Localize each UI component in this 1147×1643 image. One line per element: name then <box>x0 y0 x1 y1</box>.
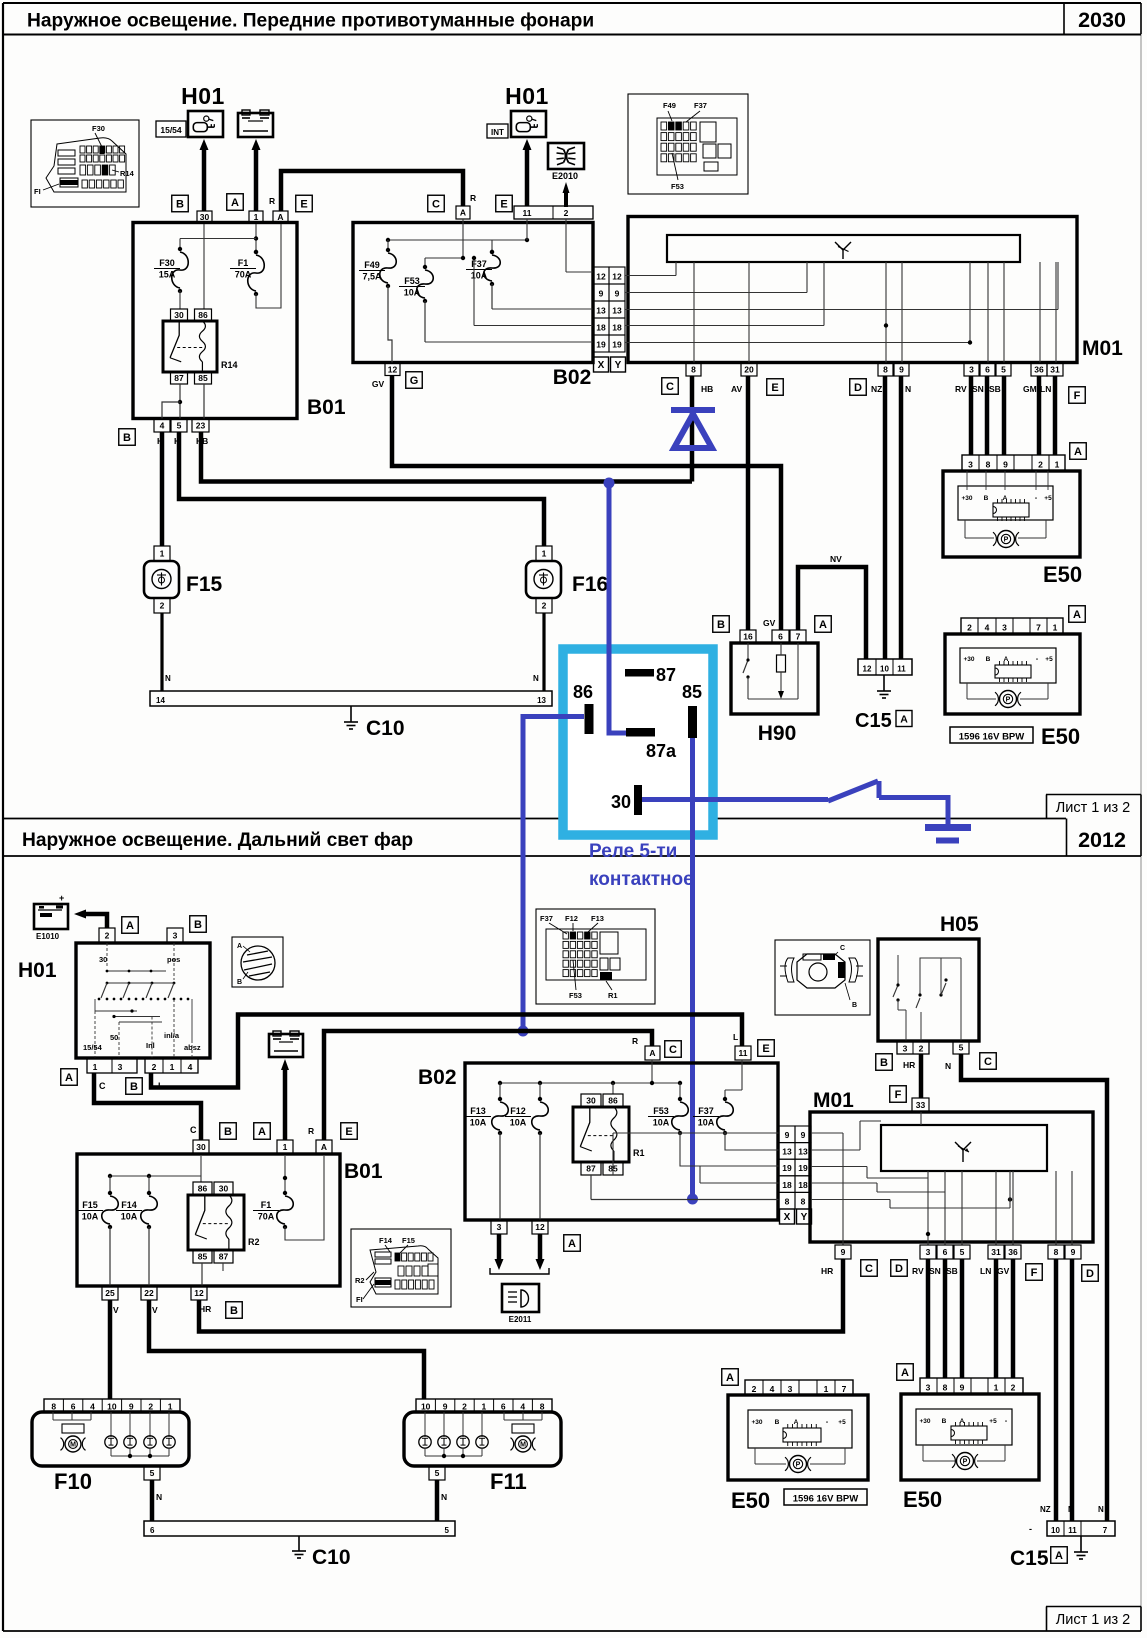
connector letter B bottom <box>119 429 136 446</box>
pin 1 of B01 <box>249 211 263 223</box>
svg-text:36: 36 <box>1008 1247 1018 1257</box>
svg-text:контактное: контактное <box>589 869 694 890</box>
svg-text:6: 6 <box>943 1247 948 1257</box>
svg-text:8: 8 <box>691 365 696 375</box>
blue wire junction to relay 87a <box>609 483 626 733</box>
svg-text:B: B <box>237 979 242 986</box>
svg-text:R: R <box>269 196 275 206</box>
title bar page 2012 <box>3 819 1141 857</box>
svg-text:Наружное освещение. Дальний св: Наружное освещение. Дальний свет фар <box>22 830 413 851</box>
svg-text:R: R <box>308 1126 314 1136</box>
svg-text:H01: H01 <box>18 959 57 982</box>
svg-text:10A: 10A <box>510 1118 527 1128</box>
wire H pin5 to F16 <box>179 432 544 546</box>
svg-text:B02: B02 <box>553 366 592 389</box>
svg-text:E2011: E2011 <box>509 1315 532 1324</box>
svg-text:9: 9 <box>599 289 604 299</box>
svg-text:F15: F15 <box>82 1200 98 1210</box>
connector pin grid B02-M01 (12 9 13 18 19) <box>593 267 625 352</box>
svg-text:V: V <box>113 1305 119 1315</box>
connector letter Y (bottom) <box>797 1209 812 1224</box>
svg-text:13: 13 <box>782 1147 792 1157</box>
svg-text:N: N <box>165 674 171 683</box>
connector letter B (B01) <box>220 1123 237 1140</box>
svg-text:C: C <box>666 381 674 393</box>
svg-text:C: C <box>432 198 440 210</box>
fuse F15 10A <box>77 1191 118 1286</box>
svg-text:M: M <box>70 1442 76 1449</box>
head lamp unit F11 <box>404 1399 561 1494</box>
svg-text:2: 2 <box>462 1402 467 1412</box>
H01 bottom pins 2 1 4 <box>145 1058 198 1073</box>
svg-text:85: 85 <box>198 373 208 383</box>
pin 4 of B01 <box>154 419 170 432</box>
svg-text:10: 10 <box>880 665 889 674</box>
wire N M01-9 to C15-11 (bottom) <box>1070 1259 1075 1521</box>
svg-text:A: A <box>726 1372 734 1384</box>
connector H01 top-left label <box>181 83 225 109</box>
svg-text:A: A <box>277 212 283 222</box>
svg-text:11: 11 <box>523 208 532 218</box>
pin 22 of B01 <box>141 1286 157 1300</box>
wire C H01-1 to B01-30 <box>94 1073 201 1140</box>
svg-text:A: A <box>65 1072 73 1084</box>
blue wire into pin 86 <box>523 714 584 719</box>
svg-text:C: C <box>865 1263 873 1275</box>
pin 3 of B02 (bottom) <box>491 1220 507 1234</box>
svg-text:30: 30 <box>196 1142 206 1152</box>
svg-text:absz: absz <box>184 1043 201 1052</box>
INT box <box>487 124 508 138</box>
M01 internal wiring (top) <box>625 262 1058 363</box>
blue wire switch to ground <box>879 798 948 825</box>
svg-text:1: 1 <box>1055 460 1060 470</box>
module M01 box (bottom) <box>810 1089 1093 1242</box>
wire RV M01-3 to E50-3 <box>969 376 974 455</box>
svg-text:A: A <box>321 1142 327 1152</box>
battery icon <box>238 110 273 137</box>
svg-text:C: C <box>99 1081 106 1091</box>
svg-text:10A: 10A <box>82 1212 99 1222</box>
svg-text:H05: H05 <box>940 913 979 936</box>
svg-text:F11: F11 <box>490 1469 527 1494</box>
wire GV M01-36 to E50-2 (bottom) <box>1011 1259 1016 1378</box>
wire pin2 to E1010 (arrow left) <box>74 910 107 929</box>
svg-text:Лист 1 из 2: Лист 1 из 2 <box>1056 1612 1130 1628</box>
svg-text:Лист 1 из 2: Лист 1 из 2 <box>1056 800 1130 816</box>
svg-text:F49: F49 <box>364 260 380 270</box>
wire GV B02 to H90 <box>392 376 781 631</box>
svg-text:F16: F16 <box>572 573 608 596</box>
svg-text:E50: E50 <box>1041 724 1080 749</box>
svg-text:Реле 5-ти: Реле 5-ти <box>589 841 677 862</box>
M01 bottom wire labels <box>821 1260 1098 1282</box>
svg-text:87: 87 <box>656 665 676 685</box>
wire label L (B02) <box>733 1032 738 1042</box>
svg-text:12: 12 <box>194 1288 204 1298</box>
blue wire 30 to switch <box>642 797 828 802</box>
svg-text:18: 18 <box>612 323 622 333</box>
svg-text:E2010: E2010 <box>552 171 578 181</box>
svg-text:+30: +30 <box>961 495 972 502</box>
svg-text:2: 2 <box>1011 1383 1016 1393</box>
svg-text:6: 6 <box>985 365 990 375</box>
svg-text:8: 8 <box>51 1402 56 1412</box>
wire label L <box>158 1081 164 1091</box>
svg-text:A: A <box>649 1048 655 1058</box>
B02 internal top rail <box>386 219 566 272</box>
relay pin 87 bar <box>625 665 676 685</box>
fuse F1 70A <box>230 224 281 308</box>
fuse F53 10A (bottom) <box>648 1097 779 1166</box>
svg-text:L: L <box>733 1032 738 1042</box>
svg-text:3: 3 <box>969 365 974 375</box>
ignition key icon H01 <box>188 111 223 137</box>
svg-text:5: 5 <box>150 1468 155 1478</box>
svg-text:30: 30 <box>219 1184 229 1194</box>
svg-text:F30: F30 <box>92 124 105 133</box>
headlamp leveling motor E50 (bottom left) <box>722 1369 868 1513</box>
wire label R (B01) <box>308 1126 314 1136</box>
fuse F37 10A (bottom) <box>693 1097 779 1150</box>
svg-text:3: 3 <box>173 931 178 941</box>
wire NZ M01-8 to C15-10 (bottom) <box>1054 1259 1059 1521</box>
svg-text:+5: +5 <box>989 1418 997 1425</box>
connector letter B (H01) <box>190 916 207 933</box>
svg-text:A: A <box>819 619 827 631</box>
svg-text:H01: H01 <box>505 83 549 109</box>
svg-text:1: 1 <box>1053 623 1058 633</box>
high beam icon E2011 <box>502 1284 539 1324</box>
svg-text:B: B <box>984 495 989 502</box>
svg-text:13: 13 <box>596 306 606 316</box>
blue diode annotation on HB wire <box>671 410 715 448</box>
ground connector C10 (bottom) <box>144 1521 455 1569</box>
sheet label top (Лист 1 из 2) <box>1046 795 1141 857</box>
svg-text:E50: E50 <box>1043 562 1082 587</box>
svg-text:F15: F15 <box>186 573 223 596</box>
svg-text:Inl: Inl <box>146 1041 155 1050</box>
svg-text:1596 16V BPW: 1596 16V BPW <box>959 732 1025 743</box>
connector letter E <box>296 195 313 212</box>
pin 33 of M01 <box>912 1098 929 1112</box>
connector letter B (B01 bottom) <box>226 1302 243 1319</box>
svg-text:1: 1 <box>170 1062 175 1072</box>
svg-text:2: 2 <box>148 1402 153 1412</box>
svg-text:1: 1 <box>482 1402 487 1412</box>
svg-text:3: 3 <box>497 1222 502 1232</box>
svg-text:30: 30 <box>200 212 210 222</box>
svg-text:Наружное освещение. Передние п: Наружное освещение. Передние противотума… <box>27 11 594 32</box>
wire HR B01-12 to M01-9 <box>199 1259 843 1332</box>
connector C15 (top) <box>855 659 912 732</box>
added relay box (Реле 5-ти контактное) <box>563 649 713 835</box>
relay pin 85 bar <box>682 682 702 738</box>
svg-text:NZ: NZ <box>1040 1505 1051 1514</box>
svg-text:4: 4 <box>160 421 165 431</box>
svg-text:5: 5 <box>177 421 182 431</box>
svg-text:1: 1 <box>168 1402 173 1412</box>
wire RV M01-3 to E50-3 (bottom) <box>926 1259 931 1378</box>
H01 internal contacts <box>83 943 201 1058</box>
svg-text:P: P <box>796 1462 801 1469</box>
svg-text:P: P <box>1004 537 1009 544</box>
wire 30 to ignition (arrow up) <box>200 139 209 211</box>
svg-text:14: 14 <box>156 696 165 705</box>
svg-text:INT: INT <box>491 128 504 137</box>
svg-text:30: 30 <box>99 955 107 964</box>
svg-text:B: B <box>194 919 202 931</box>
relay R2 <box>188 1182 260 1263</box>
svg-text:13: 13 <box>537 696 546 705</box>
B02 internal row links <box>425 256 593 342</box>
pin 12 GV of B02 <box>372 363 400 389</box>
svg-text:N: N <box>1068 1505 1074 1514</box>
M01 antenna inner box (bottom) <box>881 1125 1047 1171</box>
connector letter E (B02) <box>758 1040 775 1057</box>
svg-text:B: B <box>230 1305 238 1317</box>
svg-text:3: 3 <box>1002 623 1007 633</box>
headlamp leveling motor E50 (bottom right) <box>897 1364 1039 1512</box>
svg-text:F10: F10 <box>54 1469 92 1494</box>
svg-text:RV: RV <box>955 384 967 394</box>
connector letter E right <box>496 195 513 212</box>
svg-text:R1: R1 <box>608 991 618 1000</box>
svg-text:36: 36 <box>1034 365 1044 375</box>
svg-text:A: A <box>794 1419 799 1426</box>
svg-text:+5: +5 <box>1045 656 1053 663</box>
svg-text:GV: GV <box>763 618 776 628</box>
svg-text:C: C <box>669 1044 677 1056</box>
svg-text:9: 9 <box>841 1247 846 1257</box>
svg-text:9: 9 <box>1071 1247 1076 1257</box>
connector letter A (E50 lower) <box>1069 606 1086 623</box>
pin 12 of B02 (bottom) <box>532 1220 548 1234</box>
connector H01 top-right label <box>505 83 549 109</box>
connector letter A (E50 upper) <box>1070 443 1087 460</box>
connector pin grid B02-M01 bottom (9 13 19 18 8) <box>779 1126 811 1209</box>
svg-text:2: 2 <box>160 601 165 611</box>
svg-text:10: 10 <box>107 1402 117 1412</box>
svg-text:4: 4 <box>90 1402 95 1412</box>
connector letter B (H01 bottom) <box>126 1078 143 1095</box>
svg-text:F37: F37 <box>694 101 707 110</box>
fusebox inset F37/F12/F13 <box>536 909 655 1004</box>
svg-text:A: A <box>901 1367 909 1379</box>
svg-text:86: 86 <box>573 682 593 702</box>
svg-text:F15: F15 <box>402 1236 415 1245</box>
connector letter A (B01) <box>254 1123 271 1140</box>
svg-text:C: C <box>984 1056 992 1068</box>
wire V B01-25 to F10 <box>108 1300 113 1399</box>
M01 bottom pins (top diagram) <box>686 363 1063 376</box>
svg-text:R2: R2 <box>355 1276 365 1285</box>
pin strip 11 2 of B02 <box>514 206 593 219</box>
pin 12 of B01 <box>191 1286 207 1300</box>
svg-text:B: B <box>176 198 184 210</box>
connector letter X (bottom) <box>780 1209 795 1224</box>
svg-text:R2: R2 <box>248 1237 260 1247</box>
svg-text:F13: F13 <box>591 914 604 923</box>
svg-text:70A: 70A <box>235 270 252 280</box>
svg-text:A: A <box>258 1126 266 1138</box>
wire N F10 to C10 <box>152 1480 162 1521</box>
svg-text:F12: F12 <box>510 1106 526 1116</box>
svg-text:85: 85 <box>198 1252 208 1262</box>
wire SB M01-5 to E50-9 <box>1002 376 1007 455</box>
svg-text:13: 13 <box>798 1147 808 1157</box>
svg-text:2: 2 <box>1038 460 1043 470</box>
svg-text:3: 3 <box>926 1247 931 1257</box>
wire LN M01-31 to E50-1 <box>1053 376 1058 455</box>
svg-text:E: E <box>300 198 307 210</box>
connector letter A (B02 bottom) <box>564 1235 581 1252</box>
svg-text:A: A <box>568 1238 576 1250</box>
B02 row 18 stub <box>700 1166 779 1183</box>
wire 1 to battery (arrow up) <box>252 139 261 211</box>
svg-text:N: N <box>1098 1505 1104 1514</box>
svg-text:FI: FI <box>34 187 41 196</box>
svg-text:3: 3 <box>788 1384 793 1394</box>
svg-text:C10: C10 <box>312 1546 351 1569</box>
pin A of B01 (bottom) <box>316 1140 332 1154</box>
svg-text:10A: 10A <box>653 1118 670 1128</box>
blue label контактное <box>589 869 694 890</box>
svg-text:N: N <box>945 1061 951 1071</box>
pin 3 of H01 <box>167 928 183 943</box>
svg-text:E: E <box>345 1126 352 1138</box>
svg-text:GM: GM <box>1023 384 1037 394</box>
wire B02-3 to E2011 (arrow down) <box>495 1234 504 1270</box>
fuse F53 10A (B02 top) <box>399 258 433 342</box>
svg-text:18: 18 <box>596 323 606 333</box>
svg-text:X: X <box>598 360 605 371</box>
svg-text:HR: HR <box>903 1060 915 1070</box>
svg-text:1: 1 <box>254 212 259 222</box>
fusebox inset R2/F1/F14/F15 <box>351 1229 451 1307</box>
wire V B01-22 to F11 <box>149 1300 424 1399</box>
connector C15 (bottom) <box>1010 1505 1115 1570</box>
svg-text:F: F <box>1074 390 1081 402</box>
svg-text:D: D <box>895 1263 903 1275</box>
connector letter A (H01) <box>122 917 139 934</box>
H05 pin 5 <box>953 1041 969 1054</box>
svg-text:9: 9 <box>960 1383 965 1393</box>
svg-text:7: 7 <box>796 632 801 642</box>
wire battery to B01-1 (arrow up) <box>281 1059 289 1140</box>
svg-text:V: V <box>152 1305 158 1315</box>
svg-text:-: - <box>1029 1524 1032 1534</box>
svg-text:4: 4 <box>188 1062 193 1072</box>
svg-text:7: 7 <box>1103 1526 1108 1535</box>
connector letter A (H90) <box>815 616 832 633</box>
connector letter X <box>594 357 609 372</box>
svg-text:N: N <box>533 674 539 683</box>
svg-text:E: E <box>762 1043 769 1055</box>
svg-text:AV: AV <box>731 384 743 394</box>
svg-text:87: 87 <box>174 373 184 383</box>
svg-text:R14: R14 <box>120 169 135 178</box>
svg-text:8: 8 <box>540 1402 545 1412</box>
svg-text:B01: B01 <box>344 1160 383 1183</box>
svg-text:15/54: 15/54 <box>83 1043 103 1052</box>
blue label Реле 5-ти <box>589 841 677 862</box>
svg-text:4: 4 <box>520 1402 525 1412</box>
svg-text:8: 8 <box>785 1196 790 1206</box>
block B01 fuse/relay box <box>133 223 346 420</box>
M01 internal wiring (bottom) <box>811 1112 1072 1245</box>
M01 bottom pins (bottom diagram) <box>835 1245 1081 1259</box>
svg-text:F53: F53 <box>653 1106 669 1116</box>
svg-text:C15: C15 <box>855 710 892 732</box>
svg-text:F37: F37 <box>540 914 553 923</box>
svg-text:87: 87 <box>586 1164 596 1174</box>
svg-text:12: 12 <box>596 272 606 282</box>
wire 2 to E2010 (short arrow up) <box>563 182 570 207</box>
wire HB M01-8 down through diode <box>690 376 695 482</box>
svg-text:9: 9 <box>615 289 620 299</box>
fuse F14 10A <box>116 1191 157 1286</box>
svg-text:E50: E50 <box>903 1487 942 1512</box>
wire label GV (H90) <box>763 618 776 628</box>
ground connector C10 (top) <box>150 691 552 740</box>
svg-text:B01: B01 <box>307 396 346 419</box>
fuse F1 70A (bottom) <box>253 1156 324 1240</box>
svg-text:3: 3 <box>118 1062 123 1072</box>
svg-text:D: D <box>854 382 862 394</box>
svg-text:2030: 2030 <box>1078 8 1126 32</box>
svg-text:C: C <box>840 945 845 952</box>
svg-text:86: 86 <box>198 310 208 320</box>
svg-text:E1010: E1010 <box>36 932 60 941</box>
wire N F16 to C10 <box>533 613 544 691</box>
pin 30 of B01 (bottom) <box>193 1140 209 1154</box>
wire GM M01-36 to E50-2 <box>1037 376 1042 455</box>
svg-text:6: 6 <box>501 1402 506 1412</box>
svg-text:10A: 10A <box>121 1212 138 1222</box>
svg-text:8: 8 <box>1054 1247 1059 1257</box>
wire label N (H05) <box>945 1061 951 1071</box>
svg-text:F1: F1 <box>261 1200 272 1210</box>
svg-text:SN: SN <box>929 1266 941 1276</box>
svg-text:2: 2 <box>542 601 547 611</box>
fog lamp F15 <box>144 546 223 613</box>
pin 1 of B01 (bottom) <box>277 1140 293 1154</box>
wire SN M01-6 to E50-8 (bottom) <box>943 1259 948 1378</box>
svg-text:B: B <box>852 1002 857 1009</box>
svg-text:FI: FI <box>356 1295 363 1304</box>
svg-text:31: 31 <box>991 1247 1001 1257</box>
wire label HR (pin12) <box>199 1304 211 1314</box>
wire label R <box>269 196 275 206</box>
wire N F15 to C10 <box>162 613 171 691</box>
svg-text:10A: 10A <box>470 1118 487 1128</box>
svg-text:18: 18 <box>798 1180 808 1190</box>
svg-text:A: A <box>460 208 466 218</box>
svg-text:2: 2 <box>967 623 972 633</box>
H05 pins 3 2 <box>897 1041 929 1054</box>
svg-text:F: F <box>1031 1267 1038 1279</box>
svg-text:8: 8 <box>883 365 888 375</box>
module M01 box (top) <box>628 217 1123 363</box>
pin 23 of B01 <box>192 419 209 432</box>
svg-text:B: B <box>775 1419 780 1426</box>
svg-text:P: P <box>963 1459 968 1466</box>
wire LN M01-31 to E50-1 (bottom) <box>994 1259 999 1378</box>
svg-text:18: 18 <box>782 1180 792 1190</box>
terminal 15/54 box <box>156 121 186 137</box>
pin 11 of B02 (bottom) <box>735 1046 751 1060</box>
